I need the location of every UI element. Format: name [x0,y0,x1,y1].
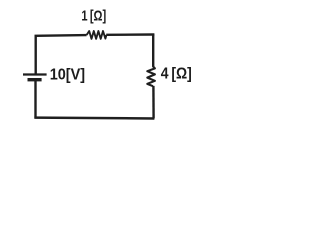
svg-text:4 [Ω]: 4 [Ω] [161,65,192,82]
wire top-left segment [36,35,87,37]
resistor R1 zigzag (1 ohm) [87,31,107,39]
resistor R2 zigzag (4 ohm) [147,66,155,86]
svg-text:1 [Ω]: 1 [Ω] [81,8,106,25]
svg-text:10[V]: 10[V] [50,66,85,83]
wire top-right segment [106,35,153,36]
wire right upper [152,34,154,67]
wire left lower [34,80,36,118]
battery V1 long plate (+) [23,73,47,75]
wire left upper (to battery) [35,35,37,73]
battery V1 short plate (-) [28,78,42,81]
wire right lower [152,86,155,119]
wire bottom [34,116,154,119]
